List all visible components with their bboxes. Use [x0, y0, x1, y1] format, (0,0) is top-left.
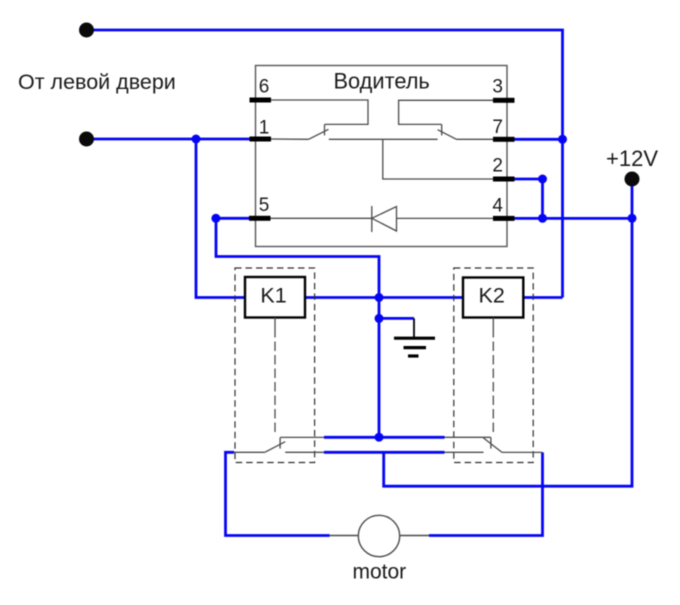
- svg-text:K2: K2: [479, 284, 505, 308]
- svg-text:K1: K1: [260, 284, 286, 308]
- wire pin 4 to +12V vertical: [514, 217, 632, 220]
- svg-text:2: 2: [492, 156, 503, 177]
- wire grounded contact rail: [324, 436, 445, 439]
- junction pin2/pin4: [538, 214, 547, 223]
- svg-text:4: 4: [492, 196, 503, 217]
- relay coil K2 box: [463, 278, 523, 318]
- internal lead pin 3 to NO contact of switch S2: [399, 100, 493, 135]
- junction pin4 / +12V: [628, 214, 637, 223]
- junction pin1 branch: [192, 135, 201, 144]
- ground symbol: [394, 318, 435, 356]
- wire coil rail down to lower contact rail: [378, 298, 381, 438]
- motor lead left: [330, 535, 359, 537]
- svg-text:1: 1: [259, 118, 270, 139]
- wire K1 right to K2 left (coil rail): [305, 296, 463, 299]
- junction pin5 branch: [211, 214, 220, 223]
- wire pin 5 branch down to coil rail: [216, 218, 379, 297]
- junction contact rail: [375, 433, 384, 442]
- junction pin7 / right vertical: [558, 135, 567, 144]
- terminal dot left lower: [79, 132, 94, 147]
- pin 6 pad: [250, 98, 272, 103]
- wire top terminal to right vertical (net A): [93, 30, 563, 298]
- switch S2 arm from pin 7: [438, 130, 493, 140]
- relay coil K1 box: [245, 277, 305, 318]
- svg-text:motor: motor: [353, 561, 407, 584]
- junction coil rail: [375, 293, 384, 302]
- junction pin2: [538, 175, 547, 184]
- svg-text:Водитель: Водитель: [334, 69, 430, 94]
- svg-text:5: 5: [259, 195, 270, 216]
- pin 4 pad: [493, 216, 515, 221]
- internal lead pin 5 to diode: [271, 217, 372, 219]
- wire +12V feed to contact rail: [384, 186, 632, 486]
- wire left relay common to motor: [226, 452, 330, 535]
- internal lead pin 6 to NO contact of switch S1: [271, 100, 368, 135]
- junction ground branch: [375, 314, 384, 323]
- relay contact SW2 (right changeover): [445, 437, 543, 452]
- svg-text:От левой двери: От левой двери: [18, 70, 176, 94]
- wire K2 right to right vertical: [523, 296, 563, 299]
- terminal dot +12V: [625, 172, 640, 187]
- svg-text:3: 3: [492, 77, 503, 98]
- wire pin 2 to pin 4: [514, 179, 543, 218]
- wire +12V contact rail: [324, 451, 445, 454]
- K1 mechanical link (dashed) to its contact: [274, 318, 276, 437]
- internal lead common rail to pin 2: [383, 139, 493, 179]
- relay contact SW1 (left changeover): [234, 437, 324, 452]
- pin 3 pad: [493, 98, 515, 103]
- motor lead right: [400, 535, 429, 537]
- pin 7 pad: [493, 137, 515, 142]
- pin 1 pad: [250, 137, 272, 142]
- wire left terminal to pin 1: [93, 138, 250, 141]
- pin 5 pad: [249, 216, 271, 221]
- svg-text:+12V: +12V: [606, 146, 658, 171]
- wire node to K1 coil left: [196, 139, 245, 298]
- motor M1 circle: [358, 515, 399, 556]
- K2 mechanical link (dashed) to its contact: [492, 318, 494, 436]
- relay K2 dashed enclosure: [454, 268, 533, 463]
- connector box U1 Водитель: [256, 66, 508, 247]
- switch S1 arm from pin 1: [271, 129, 329, 139]
- wire ground branch: [379, 317, 414, 320]
- diode D1: [372, 206, 397, 232]
- wire right relay common to motor: [429, 452, 543, 535]
- svg-text:7: 7: [492, 117, 503, 138]
- internal lead diode to pin 4: [397, 217, 494, 219]
- pin 2 pad: [493, 177, 515, 182]
- terminal dot left top: [79, 23, 94, 38]
- svg-text:6: 6: [259, 77, 270, 98]
- wire pin 7 to right vertical: [514, 138, 563, 141]
- common rail between S1 and S2: [329, 138, 438, 140]
- relay K1 dashed enclosure: [235, 268, 315, 463]
